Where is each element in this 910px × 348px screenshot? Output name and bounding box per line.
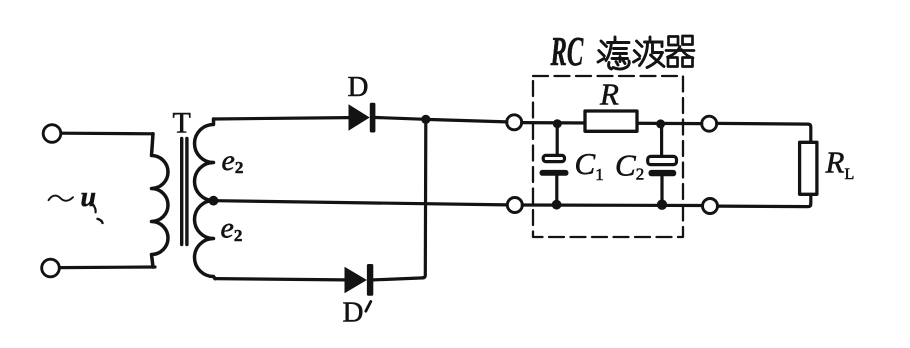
bottom rail in filter (522, 203, 702, 207)
junction dot bottom rail left (552, 200, 562, 210)
hanzi qi (device) (666, 36, 694, 67)
wire secondary bottom to diode D' (215, 279, 345, 280)
filter input terminal top (507, 115, 522, 130)
diode D (349, 103, 376, 133)
capacitor C2 lead top (660, 126, 663, 155)
capacitor C2 lead bottom (660, 176, 663, 203)
terminal bottom-left (42, 259, 60, 277)
filter output terminal bottom (703, 199, 718, 214)
svg-text:D: D (343, 297, 364, 329)
capacitor C2 plates (648, 156, 677, 176)
terminal top-left (43, 125, 61, 143)
wire diode D to junction (375, 118, 425, 120)
dashed filter box (533, 76, 683, 237)
hanzi bo (wave) (634, 37, 665, 68)
junction dot bottom rail right (657, 200, 667, 210)
junction dot top rail left (553, 119, 562, 128)
svg-text:T: T (173, 106, 191, 139)
wire center tap to filter input bottom (216, 201, 507, 205)
transformer core (182, 139, 187, 245)
wire junction to filter input top (426, 119, 507, 122)
wire vertical junction to D' branch (423, 121, 426, 278)
wire diode D' to right corner (373, 278, 423, 280)
svg-text:u: u (81, 182, 97, 213)
wire filter output top to load (717, 123, 811, 142)
top rail in filter (522, 123, 702, 124)
resistor R body (585, 111, 637, 131)
svg-text:R: R (599, 77, 619, 112)
capacitor C1 plates (540, 155, 569, 175)
hanzi lü (filter) (598, 37, 629, 69)
wire bottom-left to transformer (60, 265, 155, 269)
filter input terminal bottom (507, 198, 522, 213)
load resistor RL body (800, 142, 817, 194)
transformer secondary winding (195, 119, 216, 279)
transformer primary winding (152, 134, 169, 267)
capacitor C1 lead top (556, 126, 559, 154)
filter output terminal top (702, 116, 717, 131)
center tap dot (209, 196, 219, 206)
wire top-left to transformer (61, 132, 153, 136)
wire secondary top to diode D (214, 118, 349, 119)
wire filter output bottom to load (718, 194, 811, 206)
svg-text:RC: RC (550, 30, 584, 75)
capacitor C1 lead bottom (555, 176, 558, 204)
junction dot top rail right (656, 119, 665, 128)
diode D' (345, 264, 374, 296)
label ~u AC source (49, 182, 103, 223)
svg-text:D: D (348, 71, 369, 103)
junction dot at D output (421, 115, 430, 124)
